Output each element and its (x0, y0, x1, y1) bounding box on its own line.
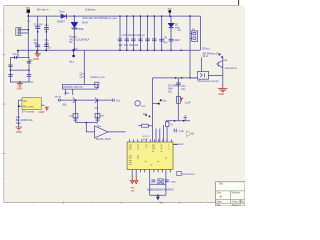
wire right loop vertical (199, 16, 201, 50)
svg-text:4x.x: 4x.x (69, 59, 75, 63)
svg-text:5x1: 5x1 (23, 100, 28, 103)
wire bridge feed vertical (17, 50, 19, 57)
capacitor bridge right upper (27, 61, 31, 63)
regulator U2 box (62, 82, 98, 89)
svg-text:Dxxx: Dxxx (60, 11, 66, 13)
sheet border frame (4, 6, 245, 203)
svg-text:R5 xxx: R5 xxx (202, 49, 210, 51)
svg-text:1.xxF: 1.xxF (178, 131, 184, 133)
wire GND pin 1 (131, 169, 133, 175)
ground under Q1 (218, 89, 227, 92)
wire mid rail (60, 99, 111, 101)
node junction rail/P2 (189, 15, 191, 17)
power port red (mid) (184, 117, 187, 120)
crystal Y1 (158, 179, 163, 184)
svg-text:xxxxxxxx: xxxxxxxx (174, 144, 184, 146)
capacitor C10 (125, 39, 129, 41)
wire bottom rail (18, 49, 200, 51)
ground under X-cap (35, 50, 41, 56)
capacitor C7 on D2 vertical (169, 39, 174, 41)
optocoupler U4 (198, 71, 209, 79)
wire zener vertical (73, 16, 75, 50)
svg-text:TP1: TP1 (25, 6, 30, 10)
node junctions (145, 114, 147, 116)
wire relay right pin (41, 104, 44, 106)
wire D2 vertical (170, 16, 172, 50)
wire U2 bottom pins (65, 89, 72, 95)
capacitor C11 (131, 39, 135, 41)
node junctions on top wire (175, 77, 177, 79)
wire TP2 to rail (169, 13, 171, 16)
wire opto out (209, 75, 223, 77)
capacitor C13 (145, 39, 149, 41)
capacitor C5 (151, 180, 155, 182)
node junction (45, 50, 47, 52)
node junctions cap bank top (119, 15, 162, 17)
svg-text:D4.0: D4.0 (82, 20, 88, 24)
svg-text:xxx xx: xxx xx (55, 97, 62, 99)
node junctions cap bank bottom (119, 50, 182, 52)
wire P2 pin stubs (190, 34, 192, 39)
wire crystal row (150, 183, 166, 185)
wire bottom link (150, 184, 166, 195)
wire cap chain vertical (177, 78, 179, 121)
node junction (46, 31, 48, 33)
svg-text:Dxxxx: Dxxxx (69, 34, 77, 38)
zone divider dark tick top right (238, 0, 240, 6)
wire TP1 to rail (27, 13, 29, 16)
wire divider right vertical (97, 100, 99, 122)
capacitor bridge left lower (8, 74, 12, 76)
resistor R8 (box) (176, 96, 180, 103)
U1 right pin names (160, 145, 170, 160)
svg-text:DCXXL–XXX?: DCXXL–XXX? (96, 139, 112, 141)
U1 left pin names (129, 145, 133, 167)
svg-text:Size: Size (217, 192, 222, 195)
wire P2 left vertical (189, 16, 191, 78)
svg-text:x x x x: x x x x (143, 136, 150, 138)
wire XT1 vertical (149, 169, 151, 195)
svg-text:1N4733A: 1N4733A (72, 27, 83, 31)
MCU U1 (yellow box) (127, 142, 173, 169)
U1 second column pin names (137, 145, 140, 160)
wire cap bank verticals (120, 16, 162, 50)
node junction at rail start (27, 15, 29, 17)
wire R5 vertical (201, 58, 203, 72)
op-amp U3A (95, 126, 108, 138)
ground under bridge (17, 82, 23, 86)
wire J1 pin stubs (22, 30, 29, 33)
wire top horizontal (153, 77, 198, 79)
wire left vertical down to MCU (152, 78, 154, 142)
wire to opamp (86, 123, 94, 132)
wire R10 left (138, 125, 141, 127)
svg-text:BT–xxxxxxx: BT–xxxxxxx (22, 111, 35, 113)
node junction bridge feed (17, 50, 19, 52)
svg-text:3T6.38V(C): 3T6.38V(C) (168, 86, 180, 88)
wire input vertical from rail to bridge (27, 16, 29, 57)
node junction (18, 105, 20, 107)
capacitor C16 (174, 129, 176, 132)
capacitor C6 (165, 180, 169, 182)
title block box (216, 182, 245, 206)
svg-text:GND: GND (16, 130, 22, 134)
node big junction dot (72, 55, 75, 58)
svg-text:10xF: 10xF (174, 40, 180, 42)
capacitor bridge right lower (27, 74, 31, 76)
svg-text:RXXXXX–XXX XX: RXXXXX–XXX XX (63, 87, 83, 89)
svg-text:GMB1850(DXXAAXX): GMB1850(DXXAAXX) (147, 188, 174, 192)
zener diode D4 (solid triangle) (71, 22, 78, 28)
wire R10 right (148, 125, 152, 127)
svg-text:x (C8,C9,C10,C11) (x): x (C8,C9,C10,C11) (x) (122, 35, 145, 37)
capacitor C8 (159, 39, 164, 41)
ground at rail left (36, 50, 38, 53)
ground arrow down (dark) (156, 195, 160, 200)
capacitor C19 (35, 45, 40, 47)
trimmer label + box (177, 171, 181, 175)
svg-text:VCC–DC·IN CXXXAA C_xxx: VCC–DC·IN CXXXAA C_xxx (82, 16, 117, 20)
node junctions Q1 (219, 54, 221, 56)
svg-text:h.3xxxxx: h.3xxxxx (85, 8, 96, 12)
power symbol right of relay (red) (45, 107, 49, 110)
connector P2 (192, 31, 198, 41)
node junction right + transistor marks (97, 99, 99, 101)
wire divider left vertical (75, 100, 77, 122)
test point TP2 (black square) (169, 10, 172, 13)
capacitor on bridge top (15, 56, 17, 59)
net stub +4V2 (73, 50, 75, 55)
svg-text:GND: GND (39, 110, 45, 114)
node junction (169, 15, 171, 17)
diode D1 (series on rail) (61, 14, 67, 19)
svg-text:10gF: 10gF (16, 123, 22, 125)
wire X-cap chain vertical (37, 16, 39, 53)
wire R9 to MCU (166, 121, 168, 142)
svg-text:10 xx: 10 xx (203, 56, 209, 58)
ground arrow 1 (red) (131, 176, 134, 184)
test point TP1 (black square) (27, 9, 30, 12)
transistor Q1 symbol (216, 60, 223, 67)
node junction left + transistor marks (75, 99, 77, 101)
node junction (37, 31, 39, 33)
diode D6 (box style) (95, 113, 100, 120)
U1 middle pin names (145, 145, 161, 167)
resistor R10 (box) (142, 124, 149, 127)
node J1 junction (28, 29, 30, 31)
svg-text:1.xxF: 1.xxF (185, 102, 191, 104)
ground arrow 2 (red) (135, 176, 138, 184)
diode D5 (box style) (73, 113, 78, 120)
node junction at rail (46, 49, 48, 51)
svg-text:BW–12/9V DCA: BW–12/9V DCA (16, 119, 33, 122)
wire relay left vertical (18, 100, 20, 127)
wire bottom link (76, 122, 98, 124)
svg-text:xxxxxxxx xx: xxxxxxxx xx (225, 68, 238, 70)
capacitor C20 (44, 27, 49, 29)
node junction (157, 194, 159, 196)
node junction mid (85, 122, 87, 124)
wire opamp output (108, 131, 126, 133)
svg-text:C1xx: C1xx (64, 93, 70, 95)
wires to MCU top pins (156, 125, 163, 142)
wire top rail (28, 15, 200, 17)
relay RLY1 (yellow box) (22, 98, 41, 110)
svg-text:Sheet of: Sheet of (232, 204, 241, 206)
capacitor C18 (35, 27, 40, 29)
capacitor C12 (138, 39, 142, 41)
wire XT2 vertical (165, 169, 167, 184)
svg-text:RLx xxxx: RLx xxxx (23, 105, 34, 109)
svg-text:xxxxxxx (–xx): xxxxxxx (–xx) (90, 77, 104, 79)
capacitor C15 (176, 83, 181, 85)
node junction small (158, 103, 160, 105)
wire MCU bottom short stubs (140, 169, 170, 172)
node junctions on bridge (10, 69, 12, 71)
svg-text:Title: Title (219, 183, 224, 186)
transistor Q1 collector wire (222, 57, 224, 89)
wire MCU top pin stubs (129, 139, 171, 142)
no-connect circle (58, 99, 60, 101)
ground under relay (16, 127, 22, 130)
power port red (top) (180, 98, 183, 101)
wire RC dropper vertical (45, 16, 47, 50)
svg-text:1xxxx–1xx x: 1xxxx–1xx x (182, 174, 196, 176)
svg-text:GND: GND (33, 57, 39, 61)
resistor R9 (box vertical) (165, 122, 169, 127)
wire bridge rectangle (10, 58, 29, 83)
capacitor bridge left upper (8, 65, 12, 67)
svg-text:1M4: 1M4 (168, 89, 173, 91)
svg-text:C1x1: C1x1 (80, 76, 86, 78)
svg-text:Number: Number (232, 192, 241, 195)
zone tick marks (2, 55, 180, 204)
capacitor C14 (152, 39, 156, 41)
svg-text:1N4007: 1N4007 (57, 22, 66, 24)
node junction at bottom rail (37, 49, 39, 51)
diode D2 (solid triangle down) (168, 23, 174, 27)
svg-text:XX.1–C.DL/XXXLA: XX.1–C.DL/XXXLA (69, 38, 89, 41)
capacitor C9 (118, 39, 122, 41)
svg-text:B+ xxx–x: B+ xxx–x (38, 8, 50, 12)
svg-text:GND: GND (17, 87, 23, 91)
node junction rail / zener (73, 15, 75, 17)
sheet background (0, 0, 245, 206)
svg-text:C1x 104: C1x 104 (34, 24, 43, 26)
svg-text:File:: File: (217, 204, 222, 206)
capacitor C21 (44, 45, 49, 47)
svg-text:C2x4: C2x4 (80, 73, 86, 75)
svg-text:x x x: x x x (143, 139, 149, 141)
svg-text:GND: GND (218, 92, 224, 96)
svg-text:DCxxxxxxx–xxx (xx): DCxxxxxxx–xxx (xx) (198, 81, 219, 83)
node junction zener to bottom rail (big dot) (72, 49, 75, 52)
wire into opto (191, 77, 198, 79)
connector J1 (16, 28, 22, 36)
node junctions (174, 120, 176, 122)
wire GND pin 2 (135, 169, 137, 175)
wire stub to node (153, 103, 159, 105)
title block lines (216, 191, 245, 203)
motor/buzzer circle symbol (135, 101, 140, 106)
U1 right pin wire (173, 144, 178, 146)
capacitor C2x at end of rail (112, 99, 114, 102)
svg-text:102 104 104 102: 102 104 104 102 (119, 45, 139, 47)
svg-text:x xxx: x xxx (170, 181, 176, 183)
inverter gate (187, 131, 194, 137)
wire vertical from rail (83, 50, 85, 84)
wire relay left pins (19, 100, 22, 106)
wire horizontal y120.8 (166, 120, 190, 122)
